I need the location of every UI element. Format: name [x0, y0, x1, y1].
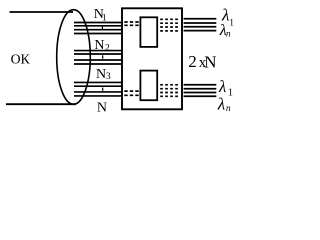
dotted output lines of top module: [160, 19, 178, 31]
svg-text:3: 3: [106, 72, 111, 82]
fiber group N1 continuation tick: [101, 26, 103, 29]
svg-text:1: 1: [102, 14, 107, 24]
svg-text:n: n: [226, 29, 231, 39]
dotted output lines of bottom module: [160, 85, 178, 97]
cable end ellipse: [57, 10, 91, 105]
svg-text:2: 2: [188, 52, 197, 71]
top output wires lambda group: [184, 19, 217, 31]
fiber group N3 wires: [74, 82, 122, 96]
dotted input lines to top module: [124, 22, 139, 25]
svg-text:1: 1: [228, 87, 233, 98]
top module rect: [140, 17, 157, 47]
demux unit box: [122, 8, 182, 109]
svg-text:λ: λ: [217, 95, 225, 114]
svg-text:n: n: [226, 104, 231, 114]
svg-text:1: 1: [229, 18, 234, 28]
bottom output wires lambda group: [184, 85, 217, 97]
svg-text:2: 2: [105, 44, 110, 54]
svg-text:N: N: [94, 38, 104, 53]
svg-text:λ: λ: [218, 77, 226, 96]
bottom module rect: [140, 71, 157, 101]
svg-text:N: N: [97, 101, 107, 116]
svg-text:N: N: [96, 67, 106, 82]
svg-text:N: N: [204, 52, 216, 71]
cable bottom line: [6, 103, 76, 105]
fiber group N3 continuation tick: [102, 88, 104, 91]
cable top line: [10, 11, 74, 13]
svg-text:ОК: ОК: [11, 52, 31, 67]
fiber group N2 wires: [74, 51, 122, 64]
fiber group N2 continuation tick: [102, 55, 104, 58]
fiber group N1 wires: [74, 23, 122, 34]
dotted input lines to bottom module: [124, 91, 139, 95]
